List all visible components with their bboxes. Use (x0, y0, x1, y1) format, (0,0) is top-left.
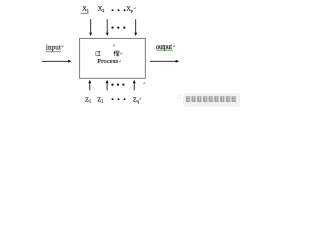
svg-text:1: 1 (87, 8, 89, 13)
svg-text:2: 2 (101, 99, 103, 104)
svg-text:2: 2 (102, 8, 104, 13)
svg-text:p: p (131, 8, 133, 13)
svg-text:input: input (46, 43, 61, 51)
svg-text:Process: Process (97, 58, 118, 65)
svg-text:1: 1 (89, 99, 91, 104)
